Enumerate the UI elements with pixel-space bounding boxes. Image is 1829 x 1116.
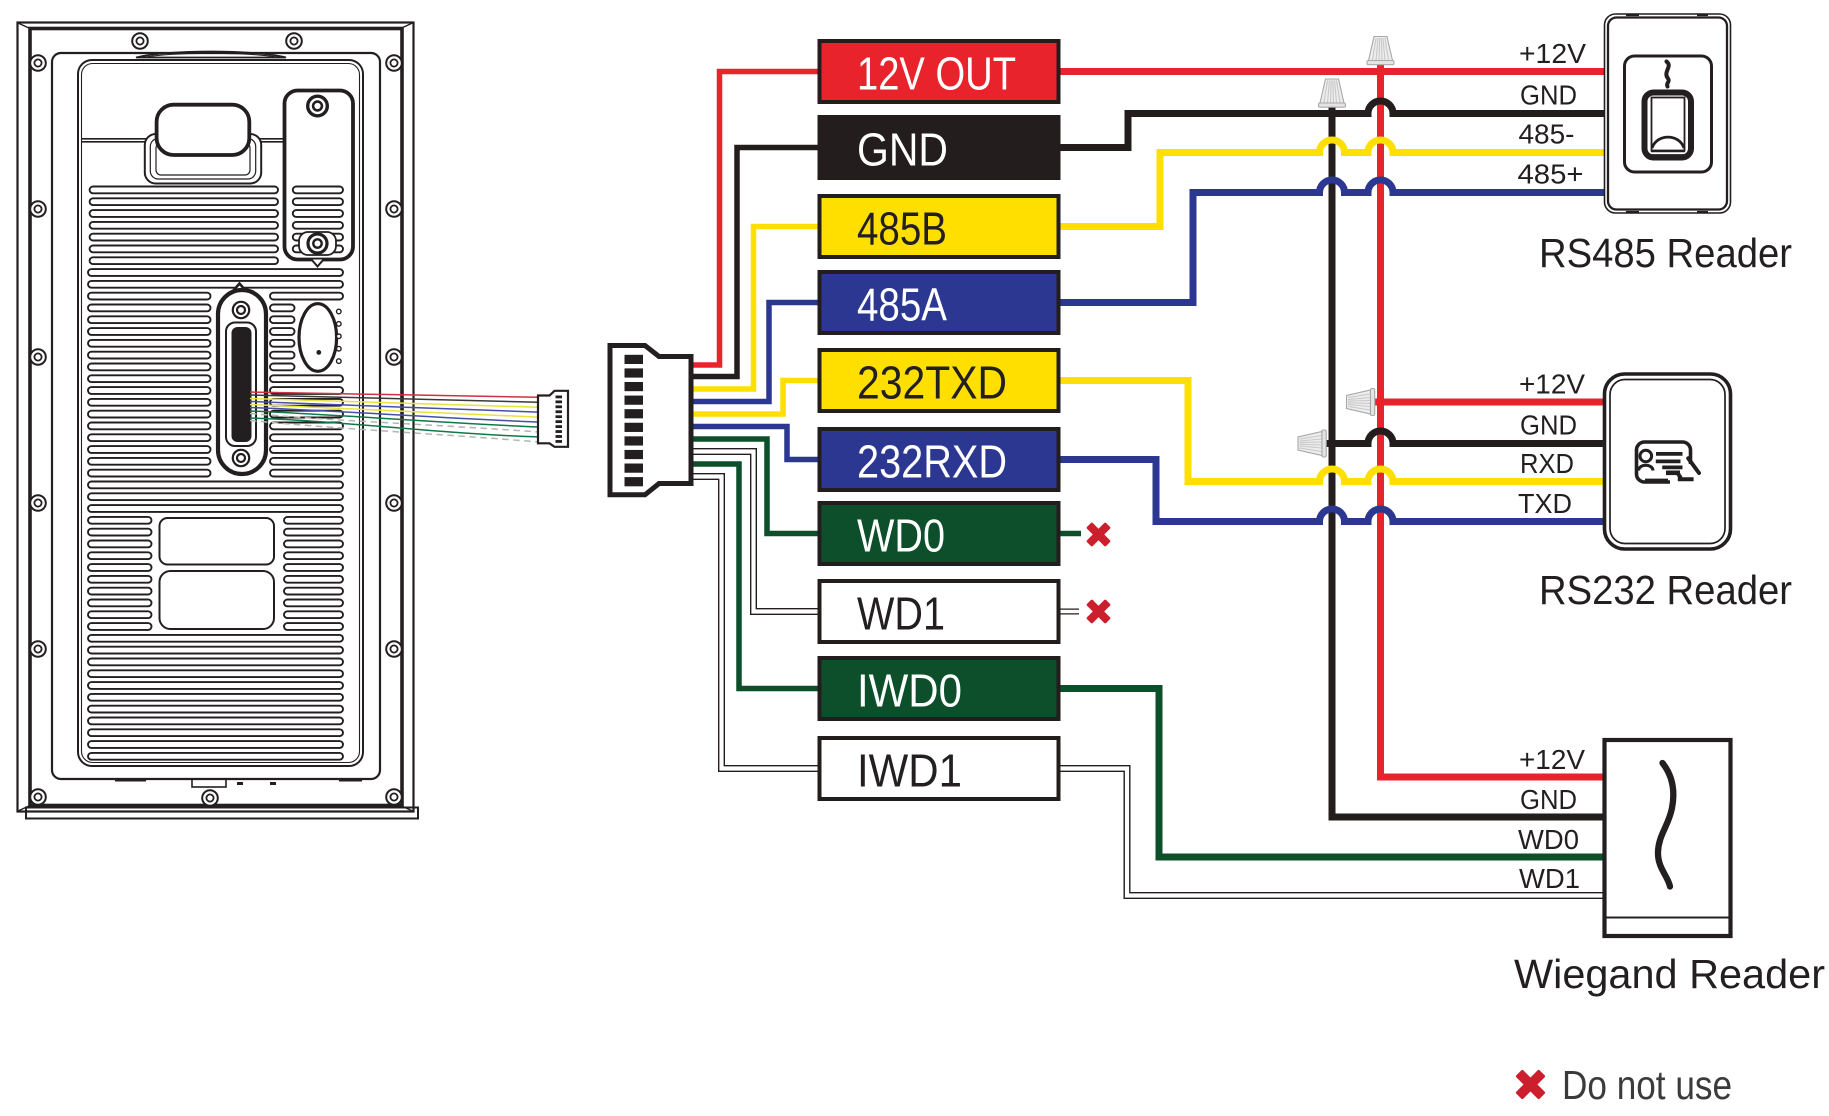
svg-text:RS485 Reader: RS485 Reader [1539,230,1792,276]
svg-text:485A: 485A [857,279,947,331]
svg-text:IWD0: IWD0 [857,665,962,717]
svg-text:GND: GND [1520,784,1577,815]
svg-text:+12V: +12V [1519,369,1585,400]
svg-text:Wiegand Reader: Wiegand Reader [1514,951,1825,997]
svg-text:GND: GND [1520,80,1577,111]
svg-text:485B: 485B [857,203,947,255]
svg-text:WD0: WD0 [1518,824,1579,855]
svg-text:485-: 485- [1519,119,1575,150]
svg-text:IWD1: IWD1 [857,745,962,797]
svg-text:RXD: RXD [1520,448,1574,479]
svg-text:WD0: WD0 [857,510,945,562]
svg-text:+12V: +12V [1519,38,1586,69]
svg-text:WD1: WD1 [1519,863,1580,894]
svg-text:RS232 Reader: RS232 Reader [1539,567,1792,613]
svg-text:Do not use: Do not use [1562,1062,1732,1108]
svg-text:232TXD: 232TXD [857,357,1007,409]
svg-text:232RXD: 232RXD [857,436,1007,488]
svg-text:GND: GND [857,124,948,176]
svg-text:GND: GND [1520,410,1577,441]
svg-text:WD1: WD1 [857,588,945,640]
svg-text:TXD: TXD [1518,488,1572,519]
svg-text:+12V: +12V [1519,744,1585,775]
svg-text:485+: 485+ [1518,159,1584,190]
svg-text:12V OUT: 12V OUT [857,48,1016,100]
